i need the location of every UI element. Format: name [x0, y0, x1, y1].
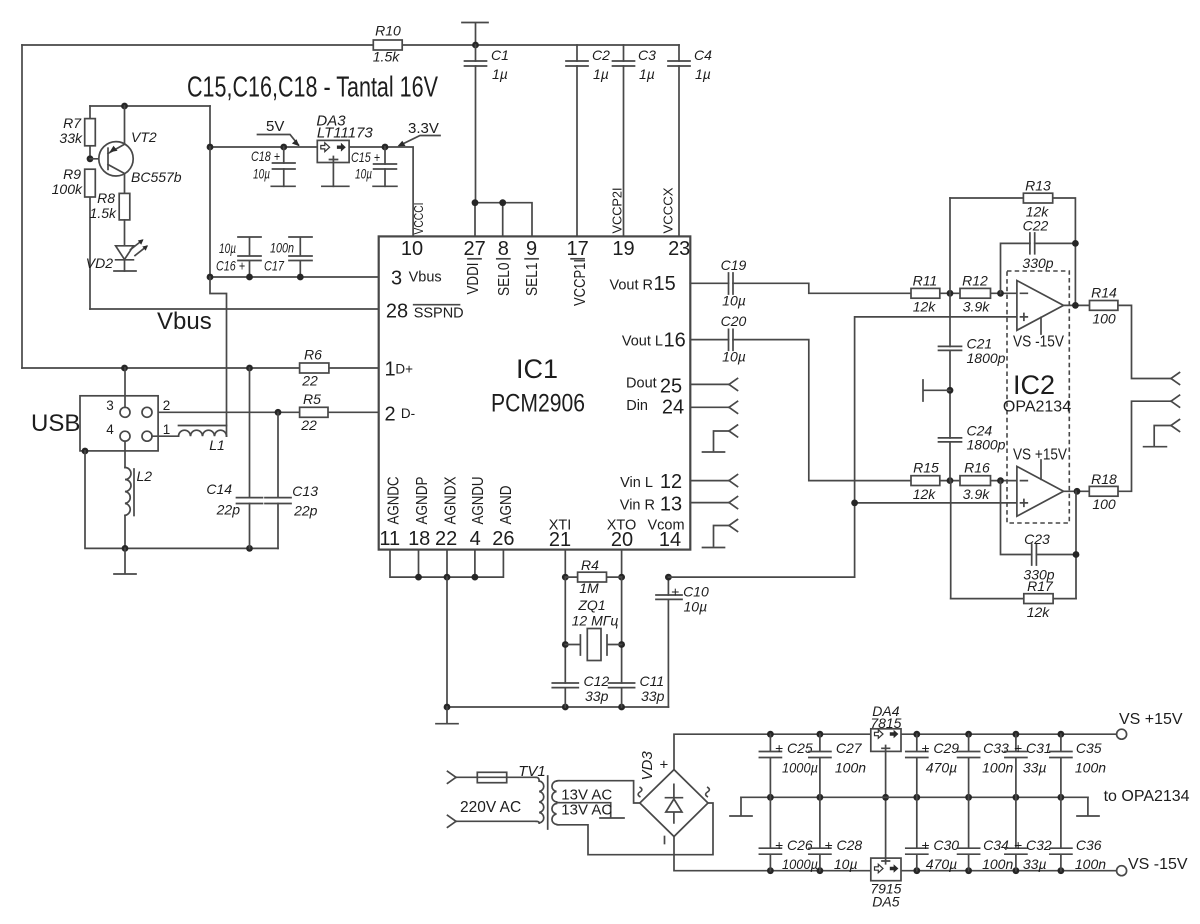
- capacitor C19: [721, 257, 747, 309]
- connector pin analog-in gnd: [714, 520, 738, 547]
- svg-text:100n: 100n: [835, 759, 866, 775]
- regulator DA4 7815: [870, 703, 901, 751]
- svg-text:C36: C36: [1076, 837, 1102, 853]
- svg-text:R6: R6: [304, 347, 322, 363]
- svg-text:R14: R14: [1091, 285, 1117, 301]
- pin 13 Vin R: [620, 494, 682, 516]
- pin 18 AGNDP: [408, 477, 431, 551]
- svg-text:19: 19: [612, 238, 634, 260]
- capacitor C1: [465, 45, 509, 203]
- capacitor C13: [265, 412, 318, 548]
- svg-text:IC2: IC2: [1013, 370, 1055, 400]
- wire Vout R to R11: [690, 283, 1017, 296]
- svg-text:R11: R11: [913, 273, 938, 289]
- capacitor C26: [759, 797, 818, 872]
- svg-text:10µ: 10µ: [355, 166, 372, 182]
- inductor L2: [125, 441, 152, 548]
- svg-text:2: 2: [163, 398, 171, 413]
- svg-text:BC557b: BC557b: [131, 169, 182, 185]
- svg-text:8: 8: [498, 238, 509, 260]
- title note: [187, 72, 438, 104]
- svg-text:100n: 100n: [270, 240, 294, 256]
- op-amp U1a: [1013, 281, 1065, 351]
- svg-text:+ C31: + C31: [1014, 740, 1052, 756]
- svg-text:+ C28: + C28: [824, 837, 862, 853]
- svg-text:IC1: IC1: [516, 354, 558, 384]
- svg-text:470µ: 470µ: [926, 759, 957, 775]
- node 13V AC labels: [561, 787, 612, 819]
- node rail/C1 junction: [472, 42, 479, 49]
- capacitor C21: [939, 336, 1006, 367]
- svg-text:+ C30: + C30: [921, 837, 959, 853]
- capacitor C24: [939, 423, 1006, 453]
- node 3.3V label: [398, 120, 441, 146]
- ground bar under C15: [373, 185, 397, 187]
- svg-text:R4: R4: [581, 557, 599, 573]
- svg-text:100: 100: [1092, 311, 1116, 327]
- wire Vbus net to pin 3: [207, 147, 379, 280]
- terminal VS +15V: [1117, 711, 1183, 739]
- wire AGND bus: [390, 550, 503, 581]
- svg-text:Vbus: Vbus: [157, 308, 212, 335]
- capacitor C23: [1001, 481, 1080, 599]
- capacitor C17: [264, 237, 312, 280]
- svg-text:220V AC: 220V AC: [460, 799, 521, 816]
- wire crystal legs: [562, 577, 625, 683]
- svg-text:100: 100: [1092, 496, 1116, 512]
- svg-text:12: 12: [660, 471, 682, 493]
- crystal ZQ1 12 MHz: [565, 597, 621, 661]
- wire Vcom feed to op-amp + inputs: [851, 317, 1017, 577]
- svg-text:+ C26: + C26: [775, 837, 813, 853]
- svg-text:D+: D+: [395, 362, 413, 377]
- svg-text:22: 22: [300, 417, 317, 433]
- svg-text:4: 4: [106, 422, 114, 437]
- svg-text:100n: 100n: [982, 759, 1013, 775]
- svg-text:Vin L: Vin L: [620, 475, 653, 491]
- svg-text:33p: 33p: [641, 688, 665, 704]
- pin 27 VDDI: [463, 238, 485, 295]
- svg-text:C15,C16,C18 - Tantal 16V: C15,C16,C18 - Tantal 16V: [187, 72, 438, 104]
- transistor VT2: [99, 106, 182, 193]
- svg-text:+ C10: + C10: [671, 584, 709, 600]
- svg-text:12k: 12k: [913, 299, 937, 315]
- connector pin Dout: [690, 378, 737, 390]
- capacitor C28: [809, 797, 862, 872]
- resistor R7: [59, 106, 95, 159]
- svg-text:10µ: 10µ: [684, 599, 708, 615]
- svg-text:1000µ: 1000µ: [782, 856, 818, 872]
- svg-text:12k: 12k: [913, 486, 937, 502]
- pin 1 D+: [384, 359, 413, 381]
- svg-text:C2: C2: [592, 47, 610, 63]
- svg-text:20: 20: [611, 529, 633, 551]
- ground bar center tap: [600, 817, 624, 819]
- svg-text:33µ: 33µ: [1023, 759, 1047, 775]
- pin 8 SEL0: [496, 238, 513, 296]
- svg-text:VS +15V: VS +15V: [1013, 447, 1068, 464]
- svg-text:330p: 330p: [1022, 255, 1053, 271]
- svg-text:+ C29: + C29: [921, 740, 959, 756]
- pin 16 Vout L: [622, 330, 686, 352]
- capacitor C20: [721, 313, 747, 365]
- svg-text:13: 13: [660, 494, 682, 516]
- wire pin3 to D+: [124, 368, 126, 407]
- svg-text:1µ: 1µ: [639, 66, 655, 82]
- svg-text:VS -15V: VS -15V: [1128, 856, 1188, 873]
- ground bar under C18: [271, 185, 295, 187]
- svg-text:21: 21: [549, 529, 571, 551]
- resistor R18 output: [1064, 401, 1172, 512]
- capacitor C35: [1050, 734, 1106, 797]
- pin 26 AGND: [492, 486, 515, 551]
- svg-text:24: 24: [662, 397, 684, 419]
- svg-text:VCCCI: VCCCI: [412, 203, 426, 235]
- svg-text:R7: R7: [63, 115, 82, 131]
- svg-text:PCM2906: PCM2906: [491, 390, 585, 418]
- transformer TV1: [518, 763, 559, 829]
- svg-text:VCCP2I: VCCP2I: [611, 188, 625, 234]
- pin 19: [612, 238, 634, 260]
- svg-text:Vout L: Vout L: [622, 334, 663, 350]
- regulator DA5 7915: [870, 858, 901, 909]
- svg-text:1M: 1M: [579, 580, 599, 596]
- ground bar digital connector: [703, 451, 725, 453]
- capacitor C10: [656, 574, 709, 707]
- capacitor C32: [1005, 797, 1052, 872]
- pin 4 AGNDU: [470, 477, 487, 551]
- capacitor C34: [958, 797, 1014, 872]
- svg-text:+ C32: + C32: [1014, 837, 1052, 853]
- svg-text:R8: R8: [97, 190, 115, 206]
- resistor R5: [300, 391, 328, 433]
- svg-text:L1: L1: [209, 437, 225, 453]
- svg-text:R16: R16: [964, 460, 990, 476]
- fuse FU1: [477, 772, 536, 782]
- svg-text:7815: 7815: [870, 715, 901, 731]
- wire +rail from bridge to VS+15V: [674, 731, 1117, 770]
- wire top-left node: [90, 103, 210, 110]
- wire top rail from left border through R10 to C4: [22, 44, 679, 46]
- capacitor C27: [809, 734, 866, 797]
- svg-text:R10: R10: [375, 23, 401, 39]
- capacitor C30: [906, 797, 959, 872]
- connector pin AC in bottom: [448, 815, 537, 827]
- svg-text:33µ: 33µ: [1023, 856, 1047, 872]
- svg-text:R17: R17: [1027, 578, 1054, 594]
- op-amp U1b: [1013, 447, 1068, 517]
- svg-text:R12: R12: [962, 273, 988, 289]
- wire DA4 DA5 ground leg: [882, 751, 889, 858]
- wire mid ground rail: [741, 794, 1088, 801]
- node to OPA2134 label: [1104, 788, 1190, 805]
- svg-text:10µ: 10µ: [722, 349, 746, 365]
- pin 23: [668, 238, 690, 260]
- svg-text:C16 +: C16 +: [216, 258, 245, 274]
- svg-text:L2: L2: [137, 468, 153, 484]
- svg-text:C15 +: C15 +: [351, 149, 380, 165]
- pin 25 Dout: [626, 376, 682, 398]
- svg-text:10µ: 10µ: [219, 240, 236, 256]
- svg-text:3: 3: [106, 398, 114, 413]
- svg-text:DA5: DA5: [872, 894, 899, 910]
- wire Vbus jog down to L1: [210, 277, 227, 436]
- svg-text:VDDI: VDDI: [465, 263, 482, 295]
- svg-text:100n: 100n: [1075, 856, 1106, 872]
- svg-text:C12: C12: [584, 673, 610, 689]
- svg-text:ZQ1: ZQ1: [577, 597, 605, 613]
- ground bar above C1: [462, 23, 488, 46]
- connector pin Vin R: [690, 497, 737, 509]
- connector pin Vin L: [690, 475, 737, 487]
- connector pin right out: [1171, 373, 1180, 385]
- capacitor C36: [1050, 797, 1106, 872]
- svg-text:1800p: 1800p: [967, 437, 1006, 453]
- wire VDDI/SEL0/SEL1 tie: [472, 199, 532, 236]
- LED VD2: [86, 220, 148, 271]
- connector pin left out: [1171, 395, 1180, 407]
- op-amp IC1 PCM2906 body: [379, 236, 691, 549]
- pin 9 SEL1: [524, 238, 541, 296]
- pin 2 D-: [384, 404, 415, 426]
- node VCCCI label: [412, 203, 426, 235]
- svg-text:5V: 5V: [266, 118, 284, 135]
- wire feedback vertical with C21 C24: [949, 198, 952, 599]
- svg-text:1: 1: [384, 359, 395, 381]
- svg-text:22: 22: [435, 528, 457, 550]
- wire -rail from bridge to VS-15V: [674, 837, 1117, 875]
- pin 17 VCCP1I: [566, 238, 589, 306]
- capacitor C12: [552, 673, 609, 707]
- svg-text:C1: C1: [491, 47, 509, 63]
- svg-text:1µ: 1µ: [492, 66, 508, 82]
- capacitor C3: [613, 45, 657, 236]
- svg-text:23: 23: [668, 238, 690, 260]
- svg-text:3.9k: 3.9k: [963, 299, 990, 315]
- svg-text:10µ: 10µ: [253, 166, 270, 182]
- wire secondary bottom to bridge: [558, 803, 713, 855]
- resistor R8: [90, 190, 130, 221]
- svg-text:22: 22: [301, 373, 318, 389]
- ground bar under DA3: [322, 185, 349, 187]
- svg-text:SSPND: SSPND: [414, 306, 464, 322]
- dashed box IC2: [1003, 271, 1071, 523]
- svg-text:10µ: 10µ: [722, 293, 746, 309]
- svg-text:C33: C33: [983, 740, 1009, 756]
- capacitor C16: [216, 237, 261, 280]
- wire SSPND net: [90, 308, 379, 310]
- capacitor C4: [668, 45, 712, 236]
- svg-text:TV1: TV1: [518, 763, 546, 780]
- resistor R4: [565, 557, 621, 596]
- wire Vout L to R15: [690, 340, 1017, 484]
- wire 5V rail: [207, 106, 414, 236]
- svg-text:VS -15V: VS -15V: [1013, 334, 1065, 351]
- ground bar analog-in connector: [703, 547, 725, 549]
- resistor R9: [52, 166, 96, 309]
- svg-text:4: 4: [470, 528, 481, 550]
- svg-text:1800p: 1800p: [967, 350, 1006, 366]
- resistor R10: [373, 23, 402, 65]
- svg-text:C20: C20: [721, 313, 747, 329]
- capacitor C18: [251, 144, 295, 187]
- svg-text:C14: C14: [206, 481, 232, 497]
- svg-text:SEL1: SEL1: [524, 263, 541, 297]
- ground under L2: [114, 548, 136, 574]
- svg-text:14: 14: [659, 529, 681, 551]
- svg-text:+: +: [660, 757, 669, 774]
- node Vbus big label: [157, 308, 212, 335]
- svg-text:C4: C4: [694, 47, 712, 63]
- wire Vcom rail: [668, 576, 854, 578]
- capacitor C2: [566, 45, 610, 236]
- svg-text:R13: R13: [1025, 178, 1051, 194]
- svg-text:VD3: VD3: [639, 751, 656, 781]
- svg-text:Dout: Dout: [626, 376, 657, 392]
- svg-text:13V AC: 13V AC: [561, 802, 612, 819]
- resistor R15: [911, 460, 940, 502]
- svg-text:Vbus: Vbus: [409, 270, 442, 286]
- svg-text:SEL0: SEL0: [496, 262, 513, 296]
- capacitor C29: [906, 734, 959, 797]
- svg-text:C3: C3: [638, 47, 656, 63]
- svg-text:AGNDU: AGNDU: [470, 477, 487, 525]
- ground bar output connector: [1144, 446, 1167, 448]
- wire USB shield to ground: [82, 448, 278, 552]
- ground bar mid rail left: [730, 797, 752, 816]
- svg-text:26: 26: [492, 528, 514, 550]
- svg-text:VCCP1I: VCCP1I: [572, 259, 589, 306]
- svg-text:Din: Din: [626, 398, 648, 414]
- pin 22 AGNDX: [435, 476, 460, 550]
- node base junction: [87, 155, 108, 162]
- svg-text:C11: C11: [640, 673, 665, 689]
- svg-text:3.9k: 3.9k: [963, 486, 990, 502]
- svg-text:Vout R: Vout R: [609, 278, 653, 294]
- connector pin Din: [690, 401, 737, 413]
- wire D+ net: [22, 365, 379, 372]
- ground reference tick: [923, 380, 953, 401]
- svg-text:1µ: 1µ: [695, 66, 711, 82]
- pin 24 Din: [626, 397, 684, 419]
- svg-text:C19: C19: [721, 257, 747, 273]
- svg-text:USB: USB: [31, 410, 80, 437]
- svg-text:AGNDC: AGNDC: [386, 477, 403, 525]
- resistor R14 output: [1064, 285, 1172, 379]
- svg-text:27: 27: [463, 238, 485, 260]
- wire secondary top to bridge: [558, 781, 640, 803]
- connector pin AC in top: [448, 771, 478, 783]
- pin 15 Vout R: [609, 273, 675, 295]
- svg-text:AGNDX: AGNDX: [443, 476, 460, 525]
- svg-text:10: 10: [401, 238, 423, 260]
- svg-text:470µ: 470µ: [926, 856, 957, 872]
- svg-text:C13: C13: [292, 483, 318, 499]
- svg-text:R15: R15: [913, 460, 939, 476]
- node 220V AC label: [460, 799, 521, 816]
- svg-text:100n: 100n: [1075, 759, 1106, 775]
- svg-text:28: 28: [386, 301, 408, 323]
- pin 10: [401, 238, 423, 260]
- wire AGND down to analog ground: [444, 577, 669, 710]
- connector USB: [80, 396, 170, 451]
- svg-text:R5: R5: [303, 391, 321, 407]
- svg-text:C23: C23: [1024, 531, 1050, 547]
- svg-text:16: 16: [664, 330, 686, 352]
- ground bar mid rail right: [1077, 797, 1099, 816]
- resistor R17 feedback bottom: [951, 578, 1076, 620]
- svg-text:to OPA2134: to OPA2134: [1104, 788, 1190, 805]
- resistor R11: [911, 273, 940, 315]
- resistor R13 feedback top: [950, 178, 1075, 307]
- capacitor C33: [958, 734, 1014, 797]
- svg-text:2: 2: [384, 404, 395, 426]
- svg-text:3: 3: [391, 268, 402, 290]
- svg-text:+ C25: + C25: [775, 740, 813, 756]
- svg-text:VD2: VD2: [86, 255, 113, 271]
- svg-text:18: 18: [408, 528, 430, 550]
- wire XTI XTO stubs: [562, 550, 625, 581]
- capacitor C31: [1005, 734, 1052, 797]
- node 5V label: [258, 118, 300, 146]
- pin 11 AGNDC: [379, 477, 402, 551]
- svg-text:1: 1: [163, 422, 171, 437]
- regulator DA3 LT11173: [316, 113, 373, 187]
- svg-text:R9: R9: [63, 166, 81, 182]
- svg-text:3.3V: 3.3V: [408, 120, 439, 137]
- svg-text:12 МГц: 12 МГц: [572, 613, 619, 629]
- capacitor C22: [1001, 218, 1079, 294]
- svg-text:C17: C17: [264, 258, 285, 274]
- pin 12 Vin L: [620, 471, 682, 493]
- node VCCCX label: [662, 187, 676, 234]
- svg-text:AGND: AGND: [498, 486, 515, 525]
- svg-text:12k: 12k: [1027, 604, 1051, 620]
- capacitor C11: [609, 673, 665, 707]
- resistor R16: [960, 460, 991, 502]
- svg-text:100n: 100n: [982, 856, 1013, 872]
- svg-text:C27: C27: [836, 740, 863, 756]
- svg-text:C22: C22: [1023, 218, 1049, 234]
- wire left border vertical to D+ net: [21, 45, 23, 368]
- svg-text:C18 +: C18 +: [251, 148, 280, 164]
- svg-text:9: 9: [526, 238, 537, 260]
- pin 3 Vbus: [391, 268, 442, 290]
- connector pin out gnd: [1154, 420, 1179, 446]
- resistor R12: [960, 273, 991, 315]
- svg-text:1.5k: 1.5k: [90, 205, 117, 221]
- svg-text:22p: 22p: [216, 502, 241, 518]
- node USB label: [31, 410, 80, 437]
- capacitor C15: [351, 144, 396, 187]
- svg-text:R18: R18: [1091, 471, 1117, 487]
- svg-text:25: 25: [660, 376, 682, 398]
- pin 28 SSPND: [386, 301, 464, 323]
- svg-text:17: 17: [566, 238, 588, 260]
- svg-text:1000µ: 1000µ: [782, 759, 818, 775]
- svg-text:33k: 33k: [59, 130, 83, 146]
- svg-text:D-: D-: [401, 406, 415, 421]
- svg-text:33p: 33p: [585, 688, 609, 704]
- connector pin digital gnd: [714, 425, 738, 451]
- svg-text:22p: 22p: [293, 503, 318, 519]
- svg-text:AGNDP: AGNDP: [414, 477, 431, 525]
- svg-text:VS +15V: VS +15V: [1119, 711, 1183, 728]
- svg-text:15: 15: [654, 273, 676, 295]
- capacitor C14: [206, 368, 262, 548]
- bridge rectifier VD3: [638, 751, 709, 844]
- svg-text:LT11173: LT11173: [317, 125, 374, 142]
